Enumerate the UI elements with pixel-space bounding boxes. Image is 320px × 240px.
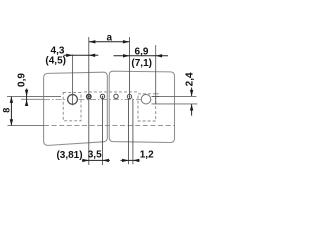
reference line 2,4 bottom: [152, 103, 198, 105]
dimension 8: [10, 97, 12, 126]
dimension 6,9 (7,1): [114, 55, 169, 57]
pin 1 (filled): [87, 94, 91, 98]
center line (dash-dot) through large holes: [44, 98, 152, 100]
extension line hole left crosshair (x=72.6): [72, 55, 74, 106]
svg-text:2,4: 2,4: [185, 72, 196, 86]
large hole right: [141, 94, 151, 104]
extension line pin4 hole edge right (x=132.9): [132, 99, 134, 165]
dashed line between boxes (hidden contour): [84, 91, 137, 93]
svg-text:8: 8: [1, 108, 11, 113]
dimension 1,2: [121, 159, 140, 161]
svg-text:6,9: 6,9: [135, 47, 149, 58]
extension line pin4 hole edge left (x=128.5): [128, 99, 130, 165]
dimension 4,3 (4,5): [64, 54, 99, 56]
dashed box left (internal hidden contour): [63, 92, 81, 120]
dimension 2,4: [191, 88, 193, 97]
pin 3: [114, 94, 118, 98]
hole row reference line left: [21, 98, 44, 100]
svg-text:a: a: [107, 32, 113, 43]
body left (terminal block housing outline): [44, 72, 108, 145]
svg-text:(3,81): (3,81): [56, 150, 82, 161]
svg-text:0,9: 0,9: [16, 73, 27, 87]
svg-text:(4,5): (4,5): [45, 56, 66, 67]
extension line a-right / pin4 (x=129.5): [129, 37, 131, 99]
solid 8mm reference line outside left: [8, 125, 45, 127]
extension line hidden pin (x=155.7): [155, 45, 157, 104]
extension line pin2 (x=102.5): [102, 96, 104, 165]
pin 2: [100, 94, 104, 98]
svg-text:(7,1): (7,1): [131, 58, 152, 69]
dashed 8mm reference line through bodies: [44, 124, 175, 126]
svg-text:3,5: 3,5: [88, 150, 102, 161]
dimension 0,9: [26, 89, 28, 106]
large hole left (with crosshair): [68, 95, 78, 105]
dimension 3,5 (3,81): [82, 159, 110, 161]
reference line 2,4 top: [152, 95, 197, 97]
hidden pin cross tick: [152, 95, 159, 97]
dashed box right (internal hidden contour): [138, 94, 156, 121]
svg-text:1,2: 1,2: [140, 150, 154, 161]
dimension a: [89, 41, 130, 43]
body right (terminal block housing outline): [109, 71, 174, 142]
pin 4: [127, 94, 131, 98]
pin row reference line left: [7, 96, 61, 98]
extension line a-left / pin1 (x=88.8): [88, 37, 90, 165]
dashed top continuation right: [156, 93, 161, 95]
